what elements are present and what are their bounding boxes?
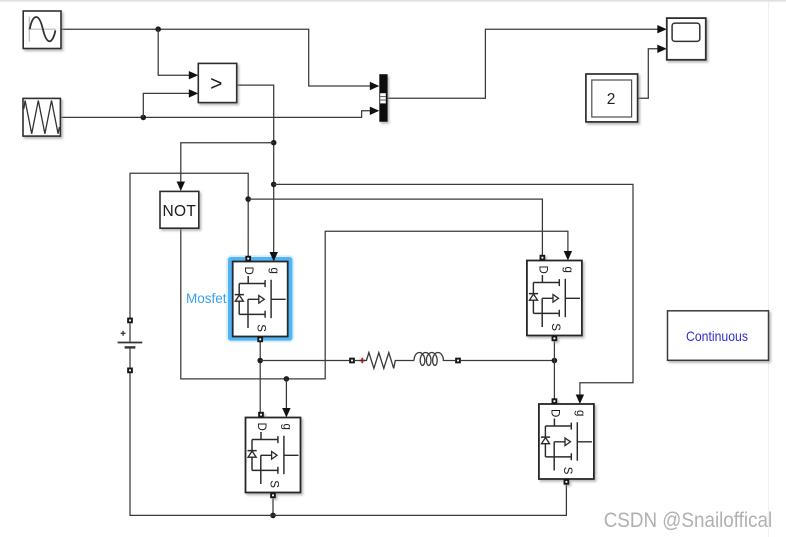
wire: sine node to comparator input 1 xyxy=(158,29,198,79)
wire: left midpoint to series RLC branch xyxy=(260,360,349,362)
junction: bottom rail node xyxy=(270,513,276,519)
mux block xyxy=(379,74,387,122)
scope block xyxy=(667,18,706,60)
wire: NOT output to Mosfet2 gate xyxy=(181,229,572,379)
wire: Mosfet1 source down to left bridge midpoint and Mosfet3 drain xyxy=(259,342,261,412)
junction: right bridge midpoint xyxy=(552,358,558,364)
junction: PWM node upper xyxy=(271,140,277,146)
wire: sine output to mux input 1 xyxy=(61,29,379,90)
mosfet Q1 (Mosfet, selected) xyxy=(233,256,288,342)
wire: top rail to Mosfet2 drain xyxy=(248,199,542,255)
mosfet Q1 highlight border xyxy=(227,256,293,341)
battery E1 xyxy=(118,318,143,374)
wire: triangle node to comparator input 2 xyxy=(143,89,198,117)
svg-text:Mosfet: Mosfet xyxy=(186,291,227,306)
svg-text:Continuous: Continuous xyxy=(686,328,748,344)
right faint panel edge xyxy=(768,2,769,537)
junction: triangle output node xyxy=(141,115,147,121)
svg-text:CSDN @Snailoffical: CSDN @Snailoffical xyxy=(604,509,773,532)
wire: comparator output down to Mosfet1 gate xyxy=(237,85,278,261)
wire: PWM node to NOT input xyxy=(177,143,274,191)
wire: NOT node to Mosfet3 gate xyxy=(282,379,290,418)
sine wave source block xyxy=(23,11,61,49)
junction: top rail node xyxy=(245,196,251,202)
series RLC branch (R-L load) xyxy=(349,352,461,368)
wire: triangle output to mux input 2 xyxy=(60,107,379,118)
wire: battery plus up to top rail and Mosfet1 drain xyxy=(130,173,248,318)
svg-text:NOT: NOT xyxy=(162,203,196,220)
wire: PWM node to Mosfet4 gate xyxy=(274,184,633,404)
triangle wave source block xyxy=(23,98,60,136)
svg-text:>: > xyxy=(210,73,222,96)
wire: RLC branch to right bridge midpoint xyxy=(461,360,555,362)
svg-text:2: 2 xyxy=(607,91,616,108)
mosfet Q4 (bottom right) xyxy=(539,398,594,484)
junction: left bridge midpoint xyxy=(257,358,263,364)
mosfet Q3 (bottom left) xyxy=(246,412,301,498)
top window border line xyxy=(0,0,786,2)
junction: NOT output node xyxy=(284,376,290,382)
wire: bottom rail from battery minus to Mosfet4 source xyxy=(130,371,566,516)
relational operator block '>' xyxy=(198,63,236,102)
NOT logical operator block xyxy=(160,191,199,228)
wire: Mosfet3 source down to bottom rail xyxy=(272,498,274,515)
wire: mux output to scope input 1 xyxy=(388,25,667,98)
junction: sine output node xyxy=(155,26,161,32)
mosfet Q2 (top right) xyxy=(527,255,582,341)
powergui block 'Continuous' xyxy=(668,311,769,361)
wire: Mosfet2 source to right midpoint to Mosfet4 drain xyxy=(553,341,555,399)
wire: constant output to scope input 2 xyxy=(638,45,667,99)
junction: PWM node lower xyxy=(271,182,277,188)
constant block '2' xyxy=(586,74,638,122)
